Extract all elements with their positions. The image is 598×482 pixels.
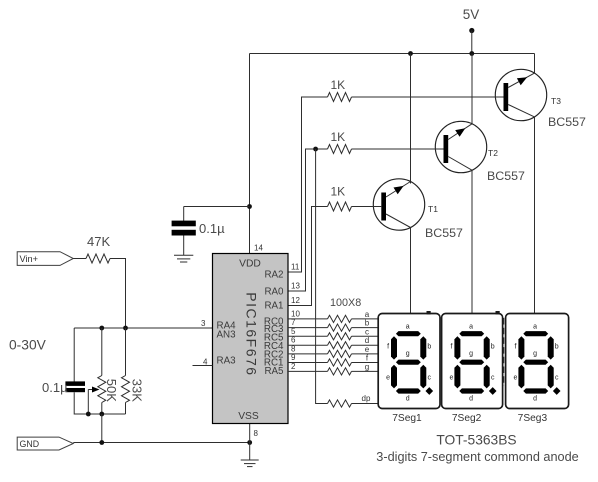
junction wiper/bottom rail (86, 412, 91, 417)
wire R to T2 base (352, 148, 444, 150)
display 1 segment b (420, 336, 426, 359)
potentiometer 50K zigzag (98, 376, 106, 403)
svg-text:a: a (533, 323, 537, 330)
svg-text:0.1µ: 0.1µ (199, 221, 225, 236)
svg-text:d: d (469, 395, 473, 402)
display 3 segment d (523, 388, 548, 393)
svg-text:RA3: RA3 (217, 356, 237, 367)
display 3 segment e (518, 365, 524, 389)
svg-text:GND: GND (20, 439, 40, 449)
7-segment display 7Seg1 body (378, 314, 440, 409)
svg-text:b: b (491, 344, 495, 351)
wire segment row b left (288, 327, 328, 329)
svg-text:c: c (428, 375, 432, 382)
svg-text:e: e (386, 375, 390, 382)
junction pot top (99, 326, 104, 331)
svg-text:f: f (451, 344, 453, 351)
display 1 top pin tick (427, 311, 431, 314)
op-amp n/a : microcontroller U1 PIC16F676 body (213, 254, 289, 424)
resistor R 1K (T1 base) (328, 202, 352, 211)
wire T3 collector riser to display 3 (534, 117, 536, 314)
transistor T3 BC557 body circle (495, 69, 546, 120)
display 1 dp dot (425, 387, 433, 395)
svg-text:T3: T3 (551, 96, 561, 106)
svg-text:5: 5 (291, 327, 296, 336)
transistor T3 emitter line (508, 73, 534, 87)
junction rail/T1 emitter (408, 51, 413, 56)
svg-text:11: 11 (291, 263, 300, 272)
wire T2 collector riser to display 2 (471, 170, 473, 313)
display 2 top pin tick (496, 311, 500, 314)
svg-text:e: e (514, 375, 518, 382)
ground symbol below VSS (241, 460, 259, 467)
junction T2 base / dp feed (313, 147, 318, 152)
svg-text:c: c (491, 375, 495, 382)
svg-text:T1: T1 (428, 204, 438, 214)
svg-text:BC557: BC557 (425, 226, 463, 240)
junction pot bottom (99, 412, 104, 417)
display 2 segment c (484, 365, 490, 389)
transistor T1 emitter arrow (394, 186, 404, 194)
resistor network 100ohm row d (328, 342, 352, 349)
svg-text:g: g (406, 350, 410, 357)
svg-text:RA5: RA5 (264, 366, 284, 377)
resistor network 100ohm row e (328, 350, 352, 357)
transistor T1 emitter line (386, 182, 411, 198)
svg-text:d: d (365, 336, 369, 345)
svg-text:47K: 47K (87, 234, 110, 249)
connector GND tag (17, 437, 73, 450)
transistor T2 emitter line (448, 124, 472, 140)
wire RA3 stub pin4 (193, 365, 213, 367)
svg-text:8: 8 (254, 429, 259, 438)
svg-text:c: c (555, 375, 559, 382)
resistor R 1K (T3 base) (328, 93, 352, 102)
wire segment row b right (352, 327, 379, 329)
svg-text:c: c (365, 327, 369, 336)
wire rail down to VDD (249, 54, 251, 254)
wire pin13 to R2 (288, 149, 328, 291)
potentiometer wiper arrow (88, 389, 95, 391)
junction GND/VSS (247, 440, 252, 445)
ground symbol below C1 (174, 255, 193, 262)
transistor T3 emitter arrow (517, 77, 527, 85)
transistor T2 BC557 body circle (435, 121, 486, 172)
svg-text:f: f (387, 344, 389, 351)
wire 33K bottom lead (125, 403, 127, 415)
wire segment row f right (352, 362, 379, 364)
7-segment display 7Seg2 body (442, 314, 503, 409)
svg-text:12: 12 (291, 296, 300, 305)
svg-text:g: g (365, 362, 369, 371)
wire VSS to ground (249, 424, 251, 460)
svg-text:9: 9 (291, 353, 296, 362)
wire segment row c right (352, 335, 379, 337)
svg-text:7: 7 (291, 318, 296, 327)
wire pin11 to R3 (288, 97, 328, 272)
svg-text:d: d (533, 395, 537, 402)
wire R to T1 base (352, 206, 382, 208)
wire T1 collector riser to display 1 (410, 228, 412, 314)
svg-text:1K: 1K (331, 130, 346, 144)
display 3 segment g (523, 360, 548, 365)
transistor T2 base bar (444, 135, 449, 163)
svg-text:33K: 33K (129, 379, 144, 402)
svg-text:f: f (515, 344, 517, 351)
display 2 dp dot (489, 387, 497, 395)
svg-text:RA2: RA2 (264, 270, 283, 281)
svg-text:0.1µ: 0.1µ (42, 380, 68, 395)
wire GND rail (73, 442, 249, 444)
svg-text:g: g (533, 350, 537, 357)
capacitor C1 0.1u plates (172, 221, 196, 236)
wire segment row f left (288, 362, 328, 364)
svg-text:TOT-5363BS: TOT-5363BS (436, 433, 516, 448)
svg-text:1K: 1K (331, 78, 346, 92)
wire segment row d right (352, 344, 379, 346)
svg-text:VSS: VSS (238, 411, 259, 422)
svg-text:a: a (365, 310, 370, 319)
svg-text:b: b (427, 344, 431, 351)
wire dp feed riser (316, 149, 328, 404)
display 3 segment f (518, 336, 524, 359)
wire 33K top lead (125, 328, 127, 376)
svg-text:14: 14 (254, 244, 263, 253)
wire 5V horizontal rail (250, 53, 535, 55)
display 3 dp dot (553, 387, 561, 395)
svg-text:0-30V: 0-30V (9, 338, 47, 353)
wire wiper down (87, 390, 89, 415)
wire 5V stub (471, 31, 473, 54)
transistor T3 base bar (504, 83, 509, 111)
display 1 segment g (396, 360, 421, 365)
wire segment row e right (352, 353, 379, 355)
svg-text:a: a (406, 323, 410, 330)
wire segment row e left (288, 353, 328, 355)
transistor T3 collector line (508, 105, 534, 117)
resistor network 100ohm row f (328, 359, 352, 366)
resistor network 100ohm row a (328, 315, 352, 322)
svg-text:g: g (469, 350, 473, 357)
junction rail/T2 emitter (469, 51, 474, 56)
svg-text:7Seg3: 7Seg3 (518, 413, 548, 424)
display 1 segment f (391, 336, 397, 359)
resistor network 100ohm row g (328, 368, 352, 375)
wire divider to GND rail (101, 414, 103, 443)
wire pot top lead (101, 328, 103, 376)
svg-text:PIC16F676: PIC16F676 (244, 292, 260, 376)
wire segment row g left (288, 370, 328, 372)
resistor R 1K (T2 base) (328, 145, 352, 154)
svg-text:VDD: VDD (239, 259, 261, 270)
resistor 33K zigzag (122, 376, 130, 403)
svg-text:3-digits 7-segment commond ano: 3-digits 7-segment commond anode (376, 450, 578, 464)
svg-text:d: d (406, 395, 410, 402)
transistor T1 base bar (381, 193, 386, 221)
wire C1 bottom lead (183, 236, 185, 256)
resistor network 100ohm row b (328, 324, 352, 331)
display 2 segment f (454, 336, 460, 359)
svg-text:3: 3 (201, 319, 206, 328)
wire segment row c left (288, 335, 328, 337)
svg-text:5V: 5V (463, 7, 480, 22)
wire R to T3 base (352, 96, 504, 98)
svg-text:BC557: BC557 (487, 169, 525, 183)
svg-text:7Seg1: 7Seg1 (392, 413, 422, 424)
svg-text:2: 2 (291, 362, 296, 371)
wire display2/3 pin ticks (503, 318, 505, 386)
svg-text:13: 13 (291, 282, 300, 291)
transistor T1 collector line (386, 214, 411, 228)
wire C1 top lead (183, 207, 185, 222)
svg-text:4: 4 (203, 358, 208, 367)
svg-text:dp: dp (362, 394, 371, 403)
display 2 segment d (459, 388, 484, 393)
wire Vin to 47K (73, 258, 86, 260)
7-segment display 7Seg3 body (506, 314, 569, 409)
resistor network 100ohm row dp (328, 400, 352, 407)
junction VDD/C1 (247, 204, 252, 209)
display 3 segment a (523, 331, 548, 336)
display 1 segment e (391, 365, 397, 389)
svg-text:T2: T2 (488, 148, 498, 158)
svg-text:BC557: BC557 (548, 115, 586, 129)
wire C1 branch horizontal (184, 206, 250, 208)
display 2 segment a (459, 331, 484, 336)
svg-text:b: b (555, 344, 559, 351)
connector Vin+ tag (17, 252, 73, 266)
wire divider junction to RA4 pin3 (74, 327, 212, 329)
wire segment row a left (288, 318, 328, 320)
capacitor C2 0.1u plates (65, 381, 85, 392)
wire pin12 to R1 (288, 207, 328, 306)
display 1 segment c (420, 365, 426, 389)
wire T1 emitter riser from rail (410, 54, 412, 184)
display 3 segment c (548, 365, 554, 389)
display 2 segment g (459, 360, 484, 365)
display 1 segment a (396, 331, 421, 336)
svg-text:6: 6 (291, 336, 296, 345)
junction GND/divider (99, 440, 104, 445)
resistor 47K (86, 254, 110, 263)
svg-text:e: e (450, 375, 454, 382)
display 2 segment e (454, 365, 460, 389)
display 2 segment b (484, 336, 490, 359)
wire T2 emitter riser from rail (471, 54, 473, 124)
svg-text:1K: 1K (331, 185, 346, 199)
wire pot bottom lead (101, 403, 103, 415)
transistor T2 collector line (448, 157, 472, 171)
svg-text:Vin+: Vin+ (20, 254, 38, 264)
svg-text:a: a (469, 323, 473, 330)
display 3 segment b (548, 336, 554, 359)
svg-text:10: 10 (291, 309, 300, 318)
display 1 segment d (396, 388, 421, 393)
transistor T1 BC557 body circle (373, 179, 424, 230)
wire segment row a right (352, 318, 379, 320)
wire T3 emitter riser from rail (534, 54, 536, 74)
junction 47K/33K (123, 326, 128, 331)
svg-text:RA0: RA0 (264, 286, 284, 297)
wire C2 bottom (74, 392, 125, 414)
wire segment row d left (288, 344, 328, 346)
wire 47K to junction (110, 259, 126, 329)
svg-text:b: b (365, 319, 370, 328)
svg-text:50K: 50K (104, 379, 119, 402)
svg-text:100X8: 100X8 (330, 297, 361, 309)
resistor network 100ohm row c (328, 333, 352, 340)
wire dp row right (352, 403, 379, 405)
wire C2 branch (73, 328, 75, 382)
5V terminal dot (469, 28, 474, 33)
wire segment row g right (352, 370, 379, 372)
svg-text:AN3: AN3 (217, 330, 237, 341)
transistor T2 emitter arrow (455, 128, 465, 137)
svg-text:RA1: RA1 (264, 300, 283, 311)
svg-text:7Seg2: 7Seg2 (452, 413, 482, 424)
